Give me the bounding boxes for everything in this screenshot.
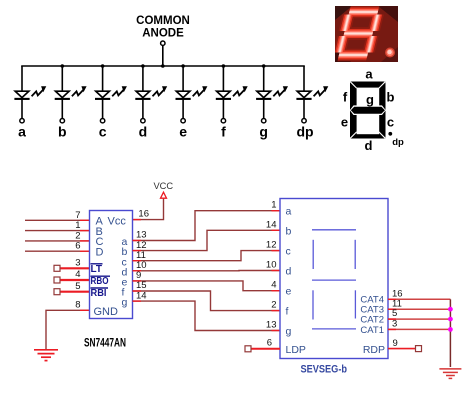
wires CAT1-4 to cathode common	[388, 298, 450, 300]
wire segment g	[133, 301, 281, 330]
LED a	[14, 66, 46, 123]
wire pin 4	[60, 279, 90, 281]
wire pin 8 to ground	[46, 310, 90, 349]
svg-text:13: 13	[266, 320, 277, 331]
svg-text:COMMON: COMMON	[136, 15, 190, 27]
labels CAT1-CAT4	[360, 295, 384, 336]
wire segment a	[133, 211, 281, 241]
svg-text:5: 5	[75, 281, 80, 292]
svg-text:e: e	[179, 124, 187, 140]
internal 7-seg graphic	[312, 230, 356, 329]
LED f	[216, 66, 248, 123]
svg-text:f: f	[286, 306, 289, 318]
svg-text:d: d	[139, 124, 148, 140]
svg-text:b: b	[286, 225, 292, 237]
svg-text:D: D	[96, 247, 104, 259]
wire LDP pin 6	[251, 348, 280, 350]
svg-text:RBI: RBI	[91, 288, 107, 299]
svg-text:14: 14	[136, 290, 147, 301]
svg-text:c: c	[286, 246, 291, 258]
svg-text:d: d	[286, 266, 292, 278]
svg-text:6: 6	[75, 241, 80, 252]
wire segment e	[133, 281, 281, 291]
svg-text:CAT1: CAT1	[360, 325, 384, 336]
LED g	[256, 66, 288, 123]
svg-text:14: 14	[266, 219, 277, 230]
svg-text:ANODE: ANODE	[142, 28, 184, 40]
svg-text:9: 9	[393, 338, 398, 349]
svg-text:4: 4	[75, 269, 80, 280]
svg-text:a: a	[18, 124, 26, 140]
svg-text:c: c	[387, 115, 394, 130]
wire input 2	[25, 240, 90, 242]
IC U1 SN7447AN body	[90, 211, 133, 319]
wire pin 5	[60, 291, 90, 293]
svg-text:LT: LT	[91, 264, 102, 275]
ground symbol (cathodes)	[439, 369, 461, 379]
svg-text:2: 2	[271, 300, 276, 311]
svg-text:Vcc: Vcc	[108, 215, 127, 227]
LED e	[176, 66, 208, 123]
svg-text:g: g	[366, 92, 374, 107]
svg-text:dp: dp	[392, 137, 404, 148]
svg-text:3: 3	[392, 319, 397, 330]
svg-text:g: g	[259, 124, 268, 140]
display SEVSEG-b body	[280, 199, 388, 359]
ground symbol (7447)	[34, 350, 58, 361]
svg-text:c: c	[99, 124, 107, 140]
wire segment b	[133, 230, 281, 250]
svg-text:GND: GND	[94, 306, 119, 318]
wire input 7	[25, 219, 90, 221]
svg-text:1: 1	[271, 200, 276, 211]
svg-text:e: e	[286, 286, 292, 298]
svg-text:f: f	[343, 90, 348, 105]
svg-text:12: 12	[266, 240, 277, 251]
LED dp	[296, 66, 328, 123]
wire input 1	[25, 230, 90, 232]
IC U1 output letters and pin numbers	[122, 236, 128, 309]
svg-text:3: 3	[75, 258, 80, 269]
svg-text:16: 16	[138, 209, 149, 220]
labelled 7-segment diagram	[341, 66, 404, 153]
svg-text:SEVSEG-b: SEVSEG-b	[301, 363, 348, 375]
wire RDP pin 9	[388, 348, 416, 350]
svg-text:dp: dp	[296, 124, 313, 140]
LED b	[55, 66, 87, 123]
svg-text:b: b	[387, 90, 395, 105]
wire input 6	[25, 250, 90, 252]
junction dots	[448, 307, 453, 312]
LED c	[95, 66, 127, 123]
LED d	[135, 66, 167, 123]
wire anode bus	[21, 65, 305, 67]
junction dots on bus	[61, 64, 266, 68]
svg-text:g: g	[286, 326, 292, 338]
svg-text:g: g	[122, 297, 128, 309]
wire segment d	[133, 270, 281, 272]
svg-text:f: f	[221, 124, 226, 140]
svg-text:SN7447AN: SN7447AN	[84, 336, 126, 350]
svg-text:10: 10	[266, 260, 277, 271]
svg-text:b: b	[58, 124, 67, 140]
svg-text:RDP: RDP	[363, 344, 385, 356]
node COMMON ANODE terminal	[161, 41, 165, 66]
svg-text:e: e	[341, 115, 348, 130]
svg-text:d: d	[365, 138, 373, 153]
svg-text:VCC: VCC	[153, 181, 173, 191]
wire pin 3	[60, 267, 90, 269]
svg-text:4: 4	[271, 280, 276, 291]
wire segment f	[133, 291, 281, 311]
svg-text:a: a	[286, 206, 292, 218]
svg-text:8: 8	[75, 300, 80, 311]
svg-text:RBO: RBO	[91, 276, 109, 287]
svg-text:a: a	[365, 66, 373, 81]
svg-text:6: 6	[267, 338, 272, 349]
power VCC	[133, 199, 164, 220]
wire segment c	[133, 251, 281, 261]
svg-text:LDP: LDP	[286, 344, 306, 356]
